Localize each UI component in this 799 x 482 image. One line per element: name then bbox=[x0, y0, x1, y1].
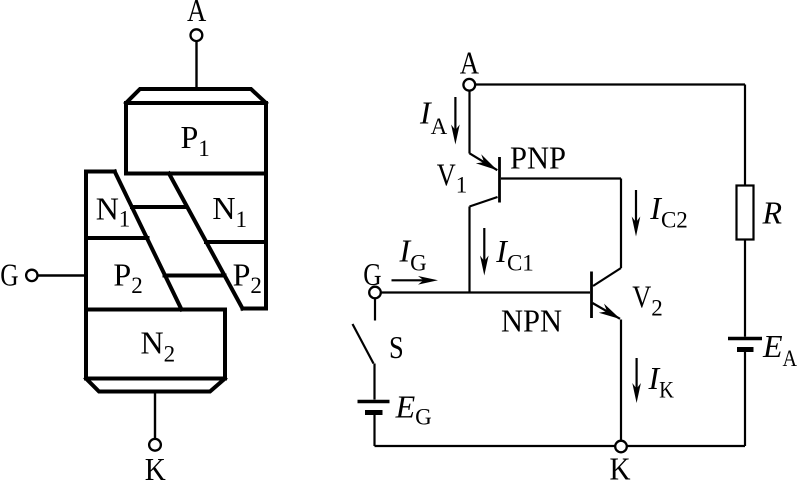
svg-text:PNP: PNP bbox=[510, 140, 566, 176]
svg-text:K: K bbox=[610, 451, 631, 482]
svg-text:A: A bbox=[187, 0, 206, 28]
svg-text:A: A bbox=[460, 45, 479, 81]
svg-text:G: G bbox=[0, 257, 18, 293]
svg-text:NPN: NPN bbox=[501, 303, 562, 339]
svg-text:R: R bbox=[762, 195, 783, 231]
svg-text:K: K bbox=[145, 451, 166, 482]
svg-text:S: S bbox=[389, 329, 404, 365]
svg-text:G: G bbox=[363, 256, 381, 292]
